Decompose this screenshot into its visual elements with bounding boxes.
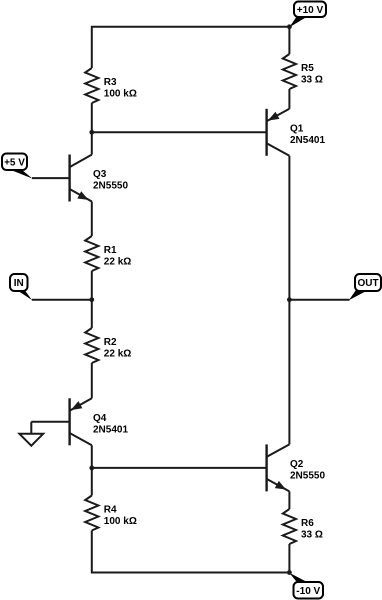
wire: R1 bottom to IN node xyxy=(91,271,93,300)
wire: +5V to Q3 base xyxy=(32,177,70,179)
svg-text:2N5550: 2N5550 xyxy=(290,470,325,481)
svg-text:2N5550: 2N5550 xyxy=(93,181,128,192)
junction: +10V node xyxy=(287,24,292,29)
wire: Q4 collector to lower node xyxy=(91,445,93,468)
wire: IN label to IN node xyxy=(32,299,92,301)
wire: R4 bottom, bottom rail to -10V node xyxy=(92,531,290,573)
wire: Q2 emitter to R6 xyxy=(288,491,290,509)
svg-text:33 Ω: 33 Ω xyxy=(301,530,323,541)
wire: Q1 base node to Q1 base xyxy=(92,131,267,133)
resistor R1 22 kΩ xyxy=(85,236,131,271)
junction: OUT node xyxy=(287,297,292,302)
svg-text:R5: R5 xyxy=(301,63,314,74)
svg-text:Q1: Q1 xyxy=(290,123,304,134)
transistor Q1 2N5401 (PNP) xyxy=(267,109,326,156)
resistor R2 22 kΩ xyxy=(85,328,131,363)
node IN flag xyxy=(10,274,32,300)
svg-text:2N5401: 2N5401 xyxy=(93,424,128,435)
svg-text:+5 V: +5 V xyxy=(4,157,25,168)
svg-text:IN: IN xyxy=(14,278,24,289)
transistor Q3 2N5550 (NPN) xyxy=(70,155,129,202)
svg-text:R1: R1 xyxy=(104,245,117,256)
transistor Q2 2N5550 (NPN) xyxy=(267,444,326,491)
svg-text:R3: R3 xyxy=(104,77,117,88)
node OUT flag xyxy=(349,274,381,300)
svg-text:R2: R2 xyxy=(104,337,117,348)
resistor R3 100 kΩ xyxy=(85,68,137,103)
wire: +10V top rail (left vertical, top horizontal, right vertical) xyxy=(92,27,290,68)
wire: R5 bottom to Q1 emitter xyxy=(288,89,290,109)
resistor R5 33 Ω xyxy=(283,54,323,89)
svg-text:100 kΩ: 100 kΩ xyxy=(104,89,137,100)
wire: Q4 base to ground xyxy=(31,421,69,423)
svg-text:100 kΩ: 100 kΩ xyxy=(104,516,137,527)
svg-text:R4: R4 xyxy=(104,505,117,516)
wire: OUT node to OUT label xyxy=(289,299,349,301)
resistor R6 33 Ω xyxy=(283,509,323,544)
junction: IN node xyxy=(89,297,94,302)
wire: lower node to R4 xyxy=(91,468,93,496)
power flag -10 V xyxy=(289,573,323,599)
power flag +5 V xyxy=(2,154,33,179)
svg-text:OUT: OUT xyxy=(357,278,378,289)
junction: Q1 base node xyxy=(89,130,94,135)
wire: R3 bottom to Q1 base node xyxy=(91,103,93,132)
wire: lower node to Q2 base xyxy=(92,467,267,469)
junction: -10V node xyxy=(287,570,292,575)
junction: Q2 base node xyxy=(89,466,94,471)
wire: Q1 collector to OUT node to Q2 collector xyxy=(288,156,290,445)
svg-text:22 kΩ: 22 kΩ xyxy=(104,349,131,360)
svg-text:22 kΩ: 22 kΩ xyxy=(104,257,131,268)
svg-text:R6: R6 xyxy=(301,518,314,529)
wire: R2 bottom to Q4 emitter xyxy=(91,363,93,398)
ground xyxy=(19,422,43,446)
wire: Q3 emitter to R1 xyxy=(91,202,93,237)
wire: R6 bottom to bottom rail xyxy=(288,544,290,573)
wire: node to Q3 collector xyxy=(91,132,93,154)
svg-text:33 Ω: 33 Ω xyxy=(301,75,323,86)
wire: IN node to R2 xyxy=(91,300,93,328)
svg-text:Q3: Q3 xyxy=(93,169,107,180)
power flag +10 V xyxy=(289,2,326,28)
svg-text:Q4: Q4 xyxy=(93,413,107,424)
resistor R4 100 kΩ xyxy=(85,496,137,531)
transistor Q4 2N5401 (PNP) xyxy=(70,398,129,445)
svg-text:+10 V: +10 V xyxy=(297,5,324,16)
svg-text:Q2: Q2 xyxy=(290,459,304,470)
svg-text:-10 V: -10 V xyxy=(296,586,320,597)
svg-text:2N5401: 2N5401 xyxy=(290,135,325,146)
